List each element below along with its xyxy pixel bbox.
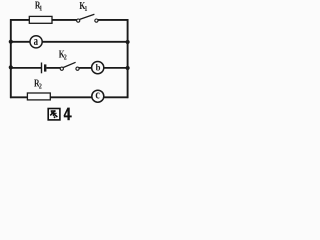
svg-text:1: 1 xyxy=(39,5,43,13)
wire left vertical xyxy=(10,19,12,98)
battery cell xyxy=(42,63,46,74)
wire K2 to meter b xyxy=(79,67,92,69)
switch K2 xyxy=(60,62,79,70)
wire top-left to R1 xyxy=(10,19,30,21)
wire bottom-left to R2 xyxy=(10,96,28,98)
wire b to right xyxy=(104,67,128,69)
resistor R2 xyxy=(27,93,50,100)
meter a xyxy=(30,36,42,48)
wire right vertical xyxy=(127,19,129,98)
svg-text:c: c xyxy=(95,89,99,102)
node junction right row3 xyxy=(126,66,130,70)
svg-text:1: 1 xyxy=(84,5,88,13)
wire R2 to meter c xyxy=(50,96,92,98)
wire row3 to battery xyxy=(10,67,41,69)
wire row2 right xyxy=(42,41,128,43)
wire battery to K2 xyxy=(46,67,60,69)
switch K1 xyxy=(77,14,98,22)
node junction left row2 xyxy=(9,40,13,44)
svg-text:b: b xyxy=(96,62,101,72)
meter b xyxy=(92,62,104,74)
node junction left row3 xyxy=(9,65,13,69)
wire K1 to top-right corner xyxy=(98,19,128,21)
wire row2 left xyxy=(10,41,30,43)
label R1 xyxy=(35,0,43,13)
图 enclosure box xyxy=(48,109,60,120)
node junction right row2 xyxy=(126,40,130,44)
svg-text:2: 2 xyxy=(39,82,43,91)
svg-text:2: 2 xyxy=(64,54,68,62)
图 inner strokes xyxy=(50,111,57,118)
svg-text:a: a xyxy=(34,34,39,48)
label K2 xyxy=(59,48,68,61)
resistor R1 xyxy=(29,16,52,23)
meter c xyxy=(92,90,104,102)
caption 图 4 xyxy=(48,108,71,121)
digit 4 xyxy=(64,108,72,121)
label K1 xyxy=(79,0,88,13)
wire R1 to K1 xyxy=(52,19,77,21)
wire c to bottom-right corner xyxy=(104,96,129,98)
label R2 xyxy=(34,77,42,91)
